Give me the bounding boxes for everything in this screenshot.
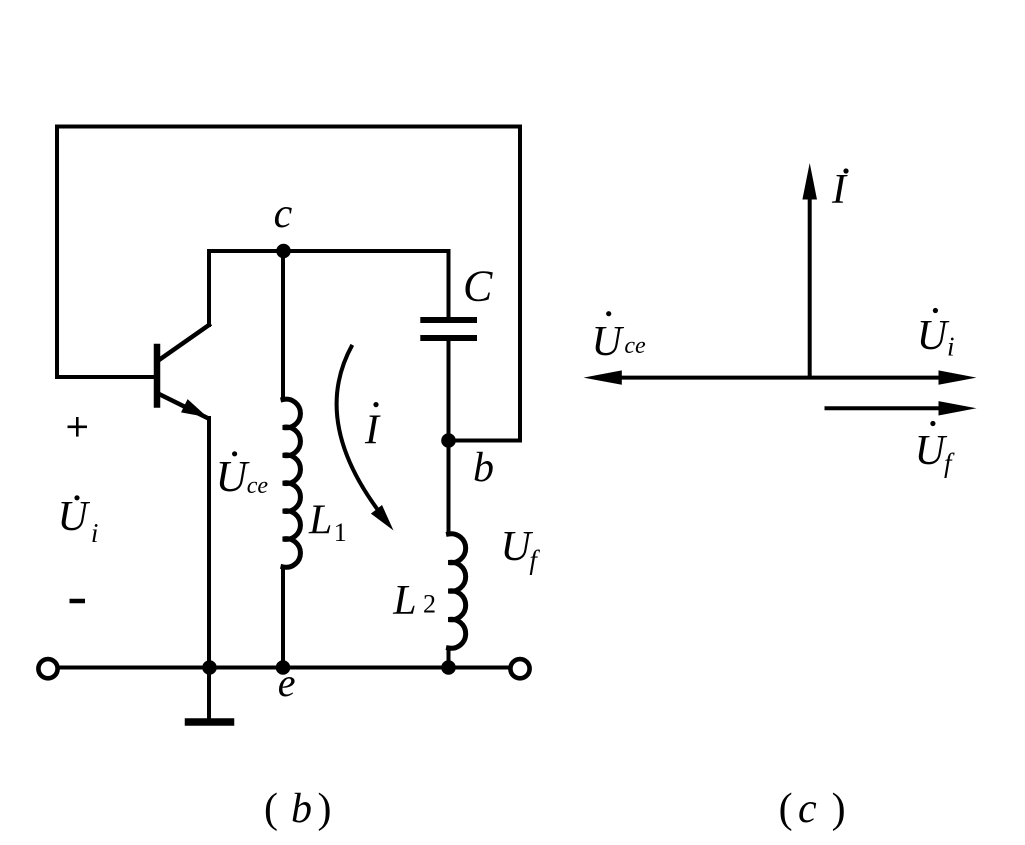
svg-text:b: b [473,445,494,491]
svg-text:Uf: Uf [501,524,541,575]
svg-text:L2: L2 [392,578,436,624]
svg-text:c: c [274,191,293,237]
svg-text:I: I [364,408,381,454]
svg-text:e: e [278,660,296,705]
svg-text:Uf: Uf [915,428,955,478]
svg-text:): ) [832,786,846,832]
svg-text:(: ( [779,786,793,832]
svg-text:I: I [831,167,848,213]
svg-text:(: ( [264,786,278,832]
svg-text:c: c [798,786,817,832]
svg-text:Ui: Ui [58,494,99,548]
svg-text:Ui: Ui [917,313,955,361]
svg-text:): ) [318,786,332,832]
svg-text:b: b [291,786,312,832]
svg-text:L1: L1 [308,498,347,548]
svg-text:Uce: Uce [216,452,269,501]
svg-text:Uce: Uce [592,319,646,365]
svg-text:C: C [463,262,493,311]
